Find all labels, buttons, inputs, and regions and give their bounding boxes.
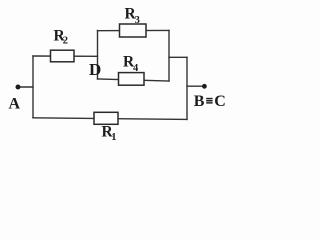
wire: R3 branch horizontal <box>98 29 170 31</box>
svg-text:3: 3 <box>135 15 140 26</box>
svg-text:B: B <box>194 93 205 110</box>
wire: connector to B vertical <box>169 56 187 58</box>
resistor R3 <box>120 24 147 37</box>
svg-text:1: 1 <box>111 132 116 143</box>
svg-text:4: 4 <box>133 63 139 74</box>
identity sign between B and C <box>206 98 212 104</box>
wire: B node stub <box>187 85 202 87</box>
resistor R1 <box>94 112 118 124</box>
resistor R4 <box>119 73 145 86</box>
wire: node D vertical <box>97 31 99 80</box>
node A dot <box>16 85 21 90</box>
wire: bottom horizontal <box>33 118 187 120</box>
wire: R2 branch horizontal <box>33 55 98 57</box>
svg-text:A: A <box>9 96 21 113</box>
svg-text:C: C <box>214 93 226 110</box>
wire: R4 branch horizontal <box>98 79 170 81</box>
wire: right vertical <box>186 57 188 119</box>
svg-text:2: 2 <box>63 35 68 46</box>
svg-text:D: D <box>89 60 101 79</box>
wire: right parallel vertical <box>168 30 170 81</box>
wire: left vertical <box>32 56 34 118</box>
node B dot <box>202 84 207 89</box>
resistor R2 <box>51 50 75 62</box>
wire: A node stub <box>18 86 33 88</box>
